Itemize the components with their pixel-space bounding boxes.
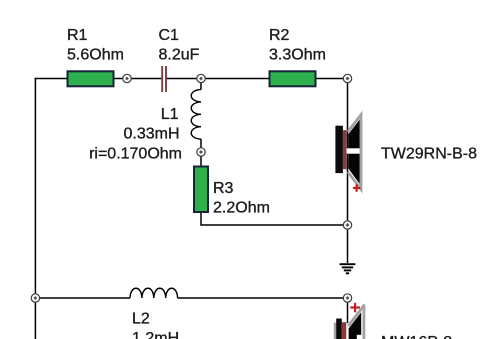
- node B (junction C1/L1/R2): [197, 74, 205, 82]
- woofer cone outline: [348, 304, 364, 339]
- wire: node B down to L1 top: [200, 79, 202, 90]
- speaker U2 woofer MW16P-8 (partially visible at bottom): [334, 303, 364, 339]
- svg-text:TW29RN-B-8: TW29RN-B-8: [381, 146, 477, 163]
- capacitor C1: [162, 66, 166, 92]
- svg-text:0.33mH: 0.33mH: [123, 126, 179, 143]
- tweeter plus terminal: [353, 184, 360, 191]
- svg-text:5.6Ohm: 5.6Ohm: [67, 47, 124, 64]
- node G (junction L2/woofer): [343, 294, 351, 302]
- woofer coil stripe: [342, 322, 347, 339]
- tweeter magnet bar: [335, 126, 343, 173]
- wire: C1 right plate to node B: [167, 78, 202, 80]
- svg-text:L1: L1: [161, 106, 179, 123]
- tweeter cone interior: [348, 119, 360, 184]
- node F (bottom bus junction): [31, 294, 39, 302]
- woofer cone interior: [349, 312, 362, 339]
- woofer plus terminal: [350, 303, 360, 312]
- woofer cone middle gap: [357, 335, 362, 339]
- wire: top corner to R1 left: [35, 78, 68, 80]
- node E (junction L1/R3): [197, 148, 205, 156]
- resistor R2: [270, 71, 316, 86]
- wire: bottom bus node F to L2 left: [35, 297, 130, 299]
- speaker U1 tweeter TW29RN-B-8: [335, 115, 361, 192]
- wire: node B to R2 left: [201, 78, 270, 80]
- ground: [340, 264, 356, 273]
- node A (junction R1/C1): [123, 74, 131, 82]
- resistor R1: [68, 71, 114, 86]
- node D (junction R3 return / tweeter minus / ground): [343, 221, 351, 229]
- svg-text:L2: L2: [132, 311, 150, 328]
- tweeter coil stripe: [343, 130, 347, 169]
- svg-text:C1: C1: [159, 27, 180, 44]
- wire: left vertical bus from top corner to bottom edge: [34, 78, 36, 339]
- tweeter cone outline: [348, 115, 361, 190]
- wire: R2 right to node C: [316, 78, 348, 80]
- wire: node E to R3 top: [200, 152, 202, 167]
- woofer basket strip: [334, 323, 336, 339]
- inductor L2 (horizontal coil): [130, 288, 178, 298]
- tweeter cone middle gap: [347, 148, 361, 153]
- svg-text:8.2uF: 8.2uF: [159, 47, 200, 64]
- resistor R3 (vertical): [194, 167, 208, 213]
- svg-text:R2: R2: [269, 27, 290, 44]
- svg-text:ri=0.170Ohm: ri=0.170Ohm: [89, 146, 182, 163]
- wire: node D down to ground: [347, 225, 349, 263]
- woofer magnet bar: [336, 319, 342, 339]
- svg-text:1.2mH: 1.2mH: [132, 330, 179, 339]
- wire: R3 bottom down then right to node D: [201, 212, 348, 226]
- wire: node G down to woofer (runs off bottom): [347, 298, 349, 323]
- svg-text:2.2Ohm: 2.2Ohm: [213, 200, 270, 217]
- svg-text:R1: R1: [67, 27, 88, 44]
- wire: L2 right to node G: [178, 297, 348, 299]
- svg-text:R3: R3: [213, 180, 234, 197]
- wire: L1 bottom to node E: [200, 139, 202, 152]
- node C (junction R2/tweeter): [343, 74, 351, 82]
- svg-text:MW16P-8: MW16P-8: [381, 334, 452, 339]
- svg-text:3.3Ohm: 3.3Ohm: [269, 47, 326, 64]
- inductor L1 (vertical coil): [191, 90, 201, 140]
- wire: node C down to tweeter / node D: [347, 79, 349, 226]
- wire: R1 right to C1 left plate: [114, 78, 162, 80]
